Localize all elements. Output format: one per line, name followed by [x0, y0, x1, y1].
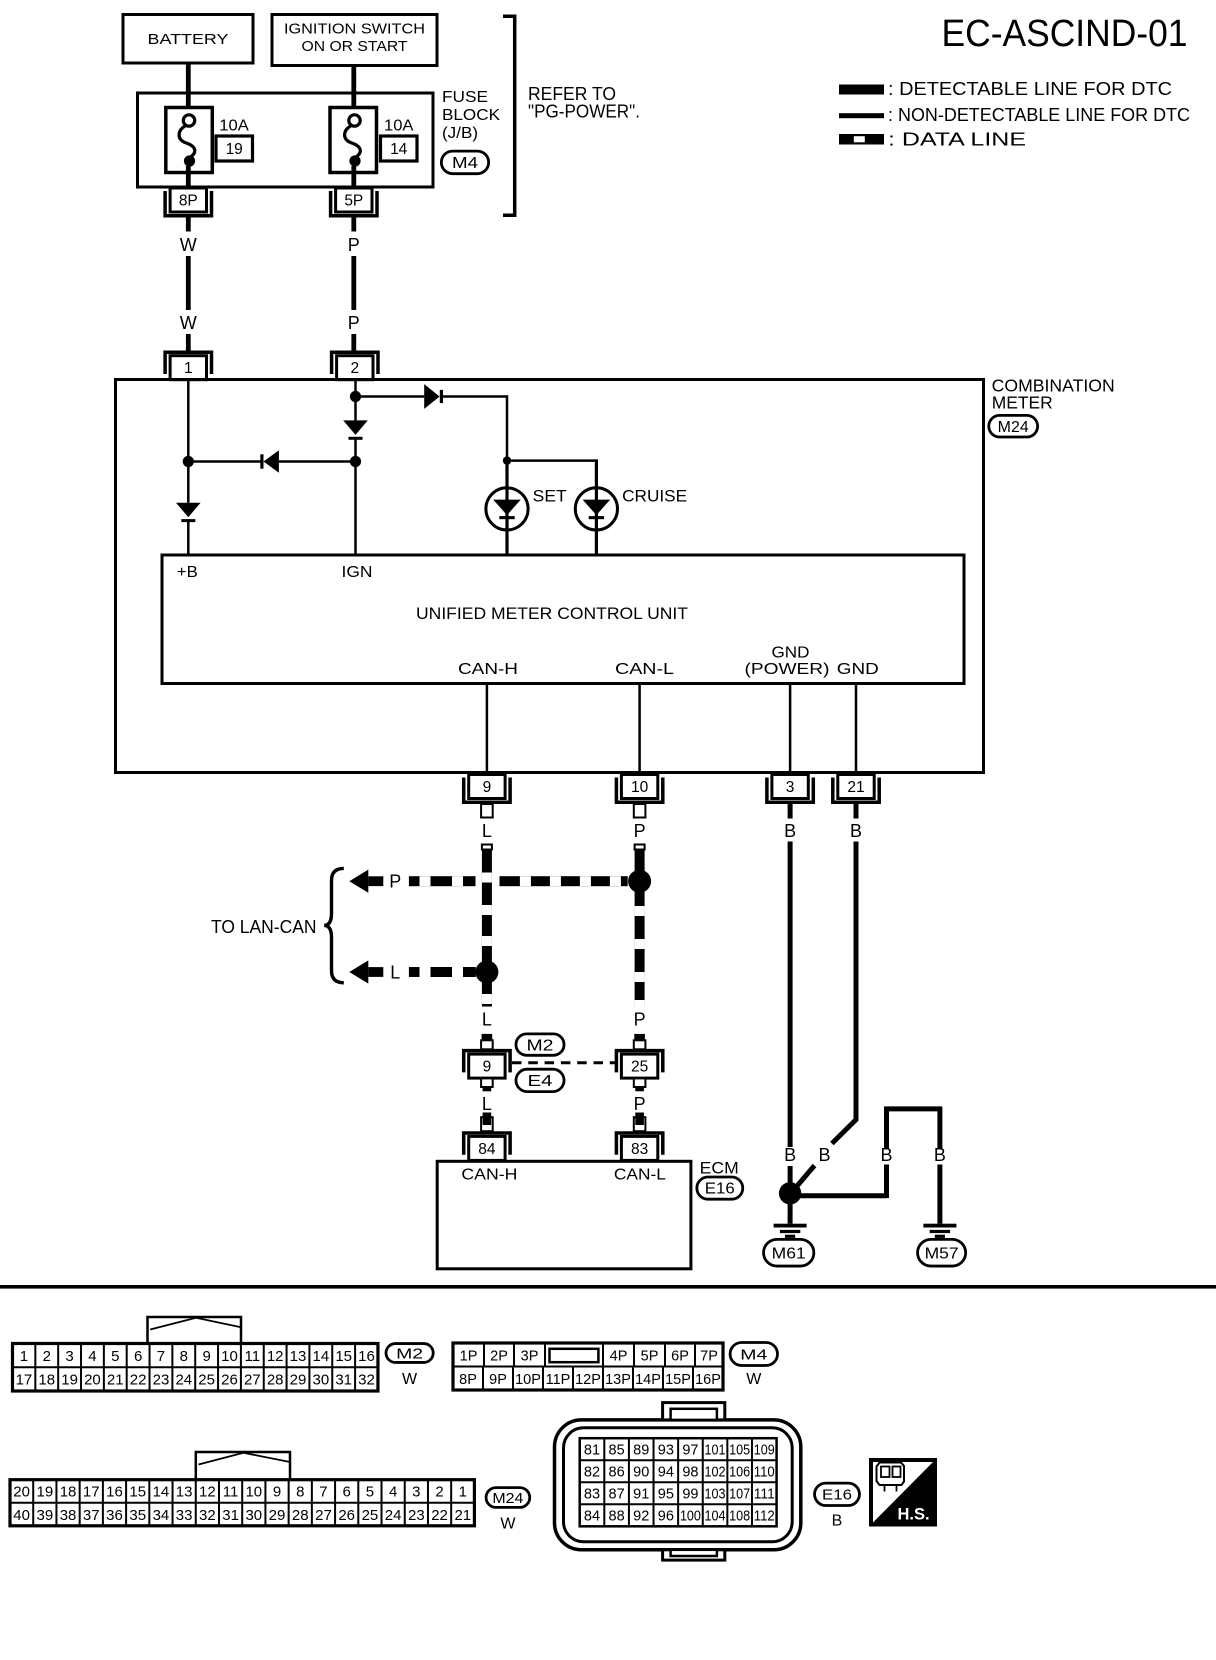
svg-text:91: 91	[633, 1486, 649, 1502]
wire ground junction to M57 ground riser	[790, 1193, 886, 1198]
dashed link M2-9 to E4-25	[512, 1061, 617, 1064]
bracket refer to PG-POWER	[503, 16, 515, 215]
svg-text:M57: M57	[925, 1245, 959, 1262]
svg-text:CAN-L: CAN-L	[615, 661, 674, 678]
connector 21 meter	[833, 778, 879, 803]
svg-text:M4: M4	[452, 155, 478, 172]
wire connector 2 to IGN node	[354, 380, 357, 397]
wire battery to fuse 19	[186, 63, 191, 115]
svg-text:100: 100	[680, 1509, 701, 1525]
svg-text:CRUISE: CRUISE	[622, 487, 687, 505]
H.S. mark	[869, 1458, 937, 1527]
svg-text:P: P	[348, 235, 360, 255]
svg-text:P: P	[634, 1094, 646, 1114]
svg-text:8: 8	[296, 1484, 304, 1501]
connector 8P	[165, 191, 211, 216]
svg-text:12P: 12P	[575, 1372, 601, 1388]
wire UMCU CAN-L to connector 10	[638, 684, 641, 774]
svg-text:21: 21	[107, 1372, 124, 1389]
combination meter box	[116, 380, 984, 773]
svg-text:28: 28	[267, 1372, 284, 1389]
svg-text:27: 27	[244, 1372, 261, 1389]
connector oval M4 face	[730, 1343, 777, 1366]
svg-text:L: L	[482, 1094, 492, 1114]
svg-text:20: 20	[84, 1372, 101, 1389]
arrow to LAN-CAN P line	[349, 870, 368, 893]
svg-text:39: 39	[36, 1507, 53, 1524]
svg-text:9: 9	[483, 1059, 492, 1076]
wire stub into connector E4-25	[634, 1034, 645, 1040]
data line CAN-L vertical	[635, 845, 645, 1007]
svg-text:97: 97	[682, 1442, 698, 1458]
legend detectable line bar	[839, 85, 884, 95]
connector face E16 bottom tab	[663, 1550, 725, 1560]
svg-text:7: 7	[319, 1484, 327, 1501]
svg-text:ON OR START: ON OR START	[302, 38, 408, 55]
connector oval E4	[516, 1069, 564, 1091]
diode D2 down-pointing on IGN line	[354, 397, 357, 421]
svg-text:10: 10	[631, 779, 649, 796]
svg-text:102: 102	[705, 1464, 726, 1480]
svg-text:: DATA LINE: : DATA LINE	[888, 129, 1026, 150]
connector 5P	[331, 191, 377, 216]
battery box	[123, 15, 253, 64]
svg-text:11: 11	[223, 1484, 239, 1501]
svg-text:10A: 10A	[219, 118, 249, 135]
svg-text:15: 15	[335, 1348, 352, 1365]
svg-text:31: 31	[335, 1372, 352, 1389]
connector oval M24 combination meter	[989, 415, 1038, 437]
connector face E16 top tab	[663, 1403, 725, 1420]
connector face M24 key tab	[196, 1452, 290, 1480]
H.S. connector icon	[877, 1463, 905, 1486]
svg-text:13: 13	[290, 1348, 307, 1365]
svg-text:CAN-L: CAN-L	[614, 1167, 666, 1184]
svg-text:24: 24	[175, 1372, 192, 1389]
svg-text:L: L	[390, 962, 400, 982]
svg-text:1: 1	[459, 1484, 467, 1501]
svg-text:96: 96	[658, 1509, 674, 1525]
svg-text:27: 27	[315, 1507, 332, 1524]
svg-text:99: 99	[682, 1486, 698, 1502]
svg-text:UNIFIED METER CONTROL UNIT: UNIFIED METER CONTROL UNIT	[416, 604, 688, 623]
svg-text:89: 89	[633, 1442, 649, 1458]
svg-text:26: 26	[338, 1507, 355, 1524]
svg-text:10P: 10P	[515, 1372, 541, 1388]
svg-text:84: 84	[584, 1509, 600, 1525]
svg-text:+B: +B	[177, 564, 198, 581]
svg-text:25: 25	[362, 1507, 379, 1524]
svg-text:E16: E16	[822, 1487, 852, 1504]
svg-text:15P: 15P	[665, 1372, 691, 1388]
data line LAN P horizontal	[409, 876, 476, 886]
fuse number box 14	[381, 136, 418, 161]
svg-text:17: 17	[83, 1484, 100, 1501]
svg-text:11: 11	[245, 1348, 261, 1365]
svg-text:B: B	[850, 821, 862, 841]
svg-text:: DETECTABLE LINE FOR DTC: : DETECTABLE LINE FOR DTC	[888, 78, 1172, 99]
svg-text:M2: M2	[527, 1037, 554, 1054]
svg-text:5: 5	[111, 1348, 119, 1365]
svg-text:9: 9	[483, 779, 492, 796]
svg-text:FUSE: FUSE	[442, 89, 488, 106]
svg-text:83: 83	[584, 1486, 600, 1502]
node set/cruise junction	[503, 456, 511, 464]
svg-text:B: B	[818, 1145, 830, 1165]
svg-text:3: 3	[412, 1484, 420, 1501]
svg-text:E16: E16	[705, 1181, 735, 1198]
svg-text:8: 8	[180, 1348, 188, 1365]
svg-text:1P: 1P	[460, 1348, 478, 1364]
svg-text:16: 16	[358, 1348, 375, 1365]
svg-text:3: 3	[65, 1348, 73, 1365]
svg-text:23: 23	[153, 1372, 170, 1389]
svg-text:IGN: IGN	[342, 564, 373, 581]
svg-text:112: 112	[754, 1509, 775, 1525]
svg-text:(POWER): (POWER)	[745, 661, 830, 678]
svg-text:10: 10	[245, 1484, 262, 1501]
svg-text:4: 4	[88, 1348, 96, 1365]
svg-text:93: 93	[658, 1442, 674, 1458]
svg-text:B: B	[784, 821, 796, 841]
svg-text:32: 32	[358, 1372, 375, 1389]
legend data line bar	[839, 134, 884, 145]
svg-text:20: 20	[13, 1484, 30, 1501]
svg-text:3: 3	[786, 779, 795, 796]
wire stub into connector 83	[634, 1117, 646, 1131]
connector face M2 grid	[13, 1344, 378, 1392]
node CAN-H LAN junction	[475, 961, 498, 984]
indicator lamp SET	[505, 461, 508, 489]
svg-text:5: 5	[366, 1484, 374, 1501]
svg-text:5P: 5P	[641, 1348, 659, 1364]
svg-text:111: 111	[754, 1486, 775, 1502]
connector 84 ECM	[464, 1133, 510, 1155]
wire stub below connector E4-25	[634, 1078, 646, 1087]
node CAN-L LAN junction	[628, 870, 651, 893]
svg-text:IGNITION SWITCH: IGNITION SWITCH	[284, 21, 425, 38]
svg-text:85: 85	[609, 1442, 625, 1458]
svg-text:34: 34	[153, 1507, 170, 1524]
svg-text:2: 2	[43, 1348, 51, 1365]
svg-text:106: 106	[729, 1464, 750, 1480]
svg-text:ECM: ECM	[700, 1159, 739, 1178]
svg-text:10A: 10A	[384, 118, 414, 135]
wire diode D4 to +B node	[188, 460, 263, 463]
svg-text:W: W	[180, 313, 197, 333]
svg-text:9P: 9P	[489, 1372, 507, 1388]
svg-text:29: 29	[290, 1372, 307, 1389]
svg-text:W: W	[402, 1371, 418, 1388]
svg-text:M2: M2	[396, 1345, 423, 1362]
svg-text:BATTERY: BATTERY	[148, 31, 229, 48]
svg-text:14P: 14P	[635, 1372, 661, 1388]
svg-text:105: 105	[729, 1442, 750, 1458]
svg-text:26: 26	[221, 1372, 238, 1389]
svg-text:12: 12	[267, 1348, 284, 1365]
svg-text:M4: M4	[740, 1346, 767, 1363]
svg-text:4: 4	[389, 1484, 397, 1501]
svg-text:38: 38	[60, 1507, 77, 1524]
svg-text:P: P	[389, 872, 401, 892]
svg-text:7: 7	[157, 1348, 165, 1365]
svg-text:: NON-DETECTABLE LINE FOR DTC: : NON-DETECTABLE LINE FOR DTC	[888, 104, 1190, 125]
node ground junction	[779, 1182, 801, 1204]
svg-text:3P: 3P	[521, 1348, 539, 1364]
svg-text:M24: M24	[998, 419, 1029, 436]
connector 10 meter	[616, 778, 662, 803]
wire connector 1 to +B node	[187, 380, 190, 462]
svg-text:EC-ASCIND-01: EC-ASCIND-01	[942, 13, 1188, 55]
wire stub connector 21	[854, 804, 859, 819]
unified meter control unit box	[162, 555, 964, 684]
connector 1	[165, 352, 211, 374]
diode D4 left-pointing	[264, 450, 279, 473]
svg-text:104: 104	[705, 1509, 726, 1525]
svg-text:13P: 13P	[605, 1372, 631, 1388]
svg-text:84: 84	[478, 1141, 496, 1158]
svg-text:81: 81	[584, 1442, 600, 1458]
wire stub connector 3	[788, 804, 793, 819]
wire stub below connector M2-9	[481, 1078, 493, 1087]
data line CAN-H vertical	[482, 845, 492, 1007]
connector face M2 key tab	[148, 1317, 242, 1344]
svg-text:36: 36	[106, 1507, 123, 1524]
svg-text:P: P	[348, 313, 360, 333]
legend non-detectable line bar	[839, 113, 884, 118]
svg-text:17: 17	[16, 1372, 33, 1389]
svg-text:19: 19	[226, 141, 243, 158]
svg-text:2: 2	[435, 1484, 443, 1501]
svg-text:35: 35	[129, 1507, 146, 1524]
svg-text:103: 103	[705, 1486, 726, 1502]
svg-text:14: 14	[390, 141, 408, 158]
arrow to LAN-CAN L line	[349, 960, 368, 983]
connector oval M2	[516, 1034, 564, 1055]
connector oval E16 face	[815, 1483, 860, 1505]
connector oval M24 face	[486, 1488, 530, 1508]
svg-text:1: 1	[20, 1348, 28, 1365]
ECM box	[437, 1161, 691, 1269]
svg-text:P: P	[634, 821, 646, 841]
svg-text:98: 98	[682, 1464, 698, 1480]
svg-text:"PG-POWER".: "PG-POWER".	[528, 102, 640, 122]
connector oval E16 ECM	[697, 1177, 743, 1199]
svg-text:METER: METER	[992, 393, 1053, 413]
svg-text:9: 9	[202, 1348, 210, 1365]
svg-text:BLOCK: BLOCK	[442, 107, 501, 124]
svg-text:SET: SET	[533, 487, 567, 505]
node +B junction	[183, 456, 194, 467]
wire ign junction to diode D1	[356, 395, 425, 398]
wire fuse 19 to connector 8P	[186, 166, 191, 190]
node IGN junction lower	[350, 456, 361, 467]
svg-text:83: 83	[631, 1141, 648, 1158]
svg-text:40: 40	[13, 1507, 30, 1524]
svg-text:16: 16	[106, 1484, 123, 1501]
connector face E16 housing	[555, 1420, 801, 1550]
svg-text:109: 109	[754, 1442, 775, 1458]
svg-text:25: 25	[198, 1372, 215, 1389]
svg-text:24: 24	[385, 1507, 402, 1524]
svg-text:101: 101	[705, 1442, 726, 1458]
connector oval M2 face	[386, 1344, 433, 1363]
fuse F2 10A slot 14	[330, 108, 377, 173]
brace LAN-CAN	[324, 868, 344, 982]
svg-text:19: 19	[36, 1484, 53, 1501]
svg-text:21: 21	[847, 779, 864, 796]
svg-text:P: P	[634, 1010, 646, 1030]
svg-text:18: 18	[60, 1484, 77, 1501]
separator line	[0, 1285, 1216, 1289]
svg-text:25: 25	[631, 1059, 648, 1076]
svg-text:92: 92	[633, 1509, 649, 1525]
svg-text:6P: 6P	[671, 1348, 689, 1364]
svg-text:29: 29	[269, 1507, 286, 1524]
svg-text:CAN-H: CAN-H	[461, 1167, 517, 1184]
connector face M4 grid	[453, 1343, 723, 1390]
svg-text:107: 107	[729, 1486, 750, 1502]
svg-text:5P: 5P	[344, 193, 363, 210]
svg-text:95: 95	[658, 1486, 674, 1502]
svg-text:9: 9	[273, 1484, 281, 1501]
svg-text:12: 12	[199, 1484, 216, 1501]
svg-text:33: 33	[176, 1507, 193, 1524]
svg-text:30: 30	[312, 1372, 329, 1389]
ignition switch box	[272, 15, 437, 66]
wire ignition switch to fuse 14	[351, 66, 356, 116]
svg-text:4P: 4P	[610, 1348, 628, 1364]
wire B connector 3 to ground junction	[788, 842, 793, 1148]
svg-text:16P: 16P	[695, 1372, 721, 1388]
svg-text:87: 87	[609, 1486, 625, 1502]
svg-text:90: 90	[633, 1464, 649, 1480]
wire junction to cruise lamp	[507, 459, 596, 462]
svg-text:8P: 8P	[459, 1372, 477, 1388]
svg-text:B: B	[832, 1513, 843, 1530]
wire ground junction to M61 ground	[788, 1203, 793, 1224]
svg-text:CAN-H: CAN-H	[458, 661, 518, 678]
diode D3 down-pointing on +B line	[187, 462, 190, 503]
wire UMCU GND to connector 21	[855, 684, 858, 774]
wire IGN junction to UMCU IGN pin	[354, 462, 357, 556]
svg-text:14: 14	[153, 1484, 170, 1501]
svg-text:22: 22	[431, 1507, 448, 1524]
svg-text:31: 31	[222, 1507, 239, 1524]
svg-text:B: B	[934, 1145, 946, 1165]
svg-text:8P: 8P	[179, 193, 198, 210]
svg-text:30: 30	[245, 1507, 262, 1524]
svg-text:110: 110	[754, 1464, 775, 1480]
wire diode D1 to set/cruise corner	[443, 395, 507, 398]
connector 83 ECM	[616, 1133, 662, 1155]
svg-text:1: 1	[184, 360, 193, 377]
svg-text:32: 32	[199, 1507, 216, 1524]
connector E4-25 via	[616, 1051, 662, 1073]
svg-text:22: 22	[130, 1372, 147, 1389]
ground symbol M57	[923, 1224, 956, 1228]
ground oval M57	[918, 1239, 966, 1266]
fuse number box 19	[216, 136, 253, 161]
svg-text:88: 88	[609, 1509, 625, 1525]
connector face M24 grid	[10, 1480, 474, 1526]
data line LAN L horizontal	[409, 967, 476, 977]
svg-text:14: 14	[312, 1348, 329, 1365]
connector oval M4 fuse block	[441, 151, 488, 174]
svg-text:28: 28	[292, 1507, 309, 1524]
wire W connector 8P to connector 1	[186, 218, 191, 232]
wire fuse 14 to connector 5P	[351, 166, 356, 190]
wire stub into connector 84	[481, 1117, 493, 1131]
ground oval M61	[764, 1239, 814, 1266]
svg-text:6: 6	[134, 1348, 142, 1365]
indicator lamp CRUISE	[575, 488, 617, 530]
svg-text:W: W	[746, 1371, 762, 1388]
wire P connector 5P to connector 2	[351, 218, 356, 232]
svg-text:13: 13	[176, 1484, 193, 1501]
svg-text:M61: M61	[772, 1245, 806, 1262]
svg-text:21: 21	[454, 1507, 471, 1524]
fuse F1 10A slot 19	[166, 108, 213, 173]
connector 9 meter	[464, 778, 510, 803]
svg-text:M24: M24	[492, 1490, 523, 1507]
svg-text:H.S.: H.S.	[897, 1506, 929, 1524]
diode D1 right-pointing	[424, 384, 439, 409]
svg-text:2P: 2P	[490, 1348, 508, 1364]
svg-text:86: 86	[609, 1464, 625, 1480]
svg-text:W: W	[500, 1516, 516, 1533]
connector face E16 pin grid	[580, 1438, 777, 1526]
svg-text:2: 2	[350, 360, 359, 377]
svg-text:37: 37	[83, 1507, 100, 1524]
svg-text:23: 23	[408, 1507, 425, 1524]
ground symbol M61	[774, 1224, 807, 1228]
svg-text:15: 15	[129, 1484, 146, 1501]
wire stub into connector M2-9	[482, 1034, 493, 1040]
svg-text:GND: GND	[772, 645, 810, 662]
svg-text:18: 18	[38, 1372, 55, 1389]
wire UMCU CAN-H to connector 9	[486, 684, 489, 774]
connector M2-9 via	[464, 1051, 510, 1073]
svg-text:19: 19	[61, 1372, 78, 1389]
svg-text:108: 108	[729, 1509, 750, 1525]
svg-text:GND: GND	[837, 661, 879, 678]
svg-text:TO LAN-CAN: TO LAN-CAN	[211, 917, 317, 937]
connector 2	[332, 352, 378, 374]
svg-text:L: L	[482, 821, 492, 841]
node ign junction upper	[350, 391, 361, 402]
wire IGN junction to diode D4	[279, 460, 356, 463]
svg-text:94: 94	[658, 1464, 674, 1480]
svg-text:6: 6	[343, 1484, 351, 1501]
svg-text:11P: 11P	[546, 1372, 571, 1388]
svg-text:L: L	[482, 1010, 492, 1030]
svg-text:W: W	[180, 235, 197, 255]
svg-text:82: 82	[584, 1464, 600, 1480]
svg-text:7P: 7P	[700, 1348, 718, 1364]
svg-text:E4: E4	[528, 1073, 553, 1090]
wire B connector 21 diagonal to ground junction	[854, 842, 859, 1120]
fuse block J/B box	[138, 93, 434, 187]
svg-text:10: 10	[221, 1348, 238, 1365]
key slot M4	[550, 1349, 599, 1362]
svg-text:B: B	[784, 1145, 796, 1165]
wire UMCU GND POWER to connector 3	[789, 684, 792, 774]
svg-text:(J/B): (J/B)	[442, 125, 478, 142]
connector 3 meter	[767, 778, 813, 803]
